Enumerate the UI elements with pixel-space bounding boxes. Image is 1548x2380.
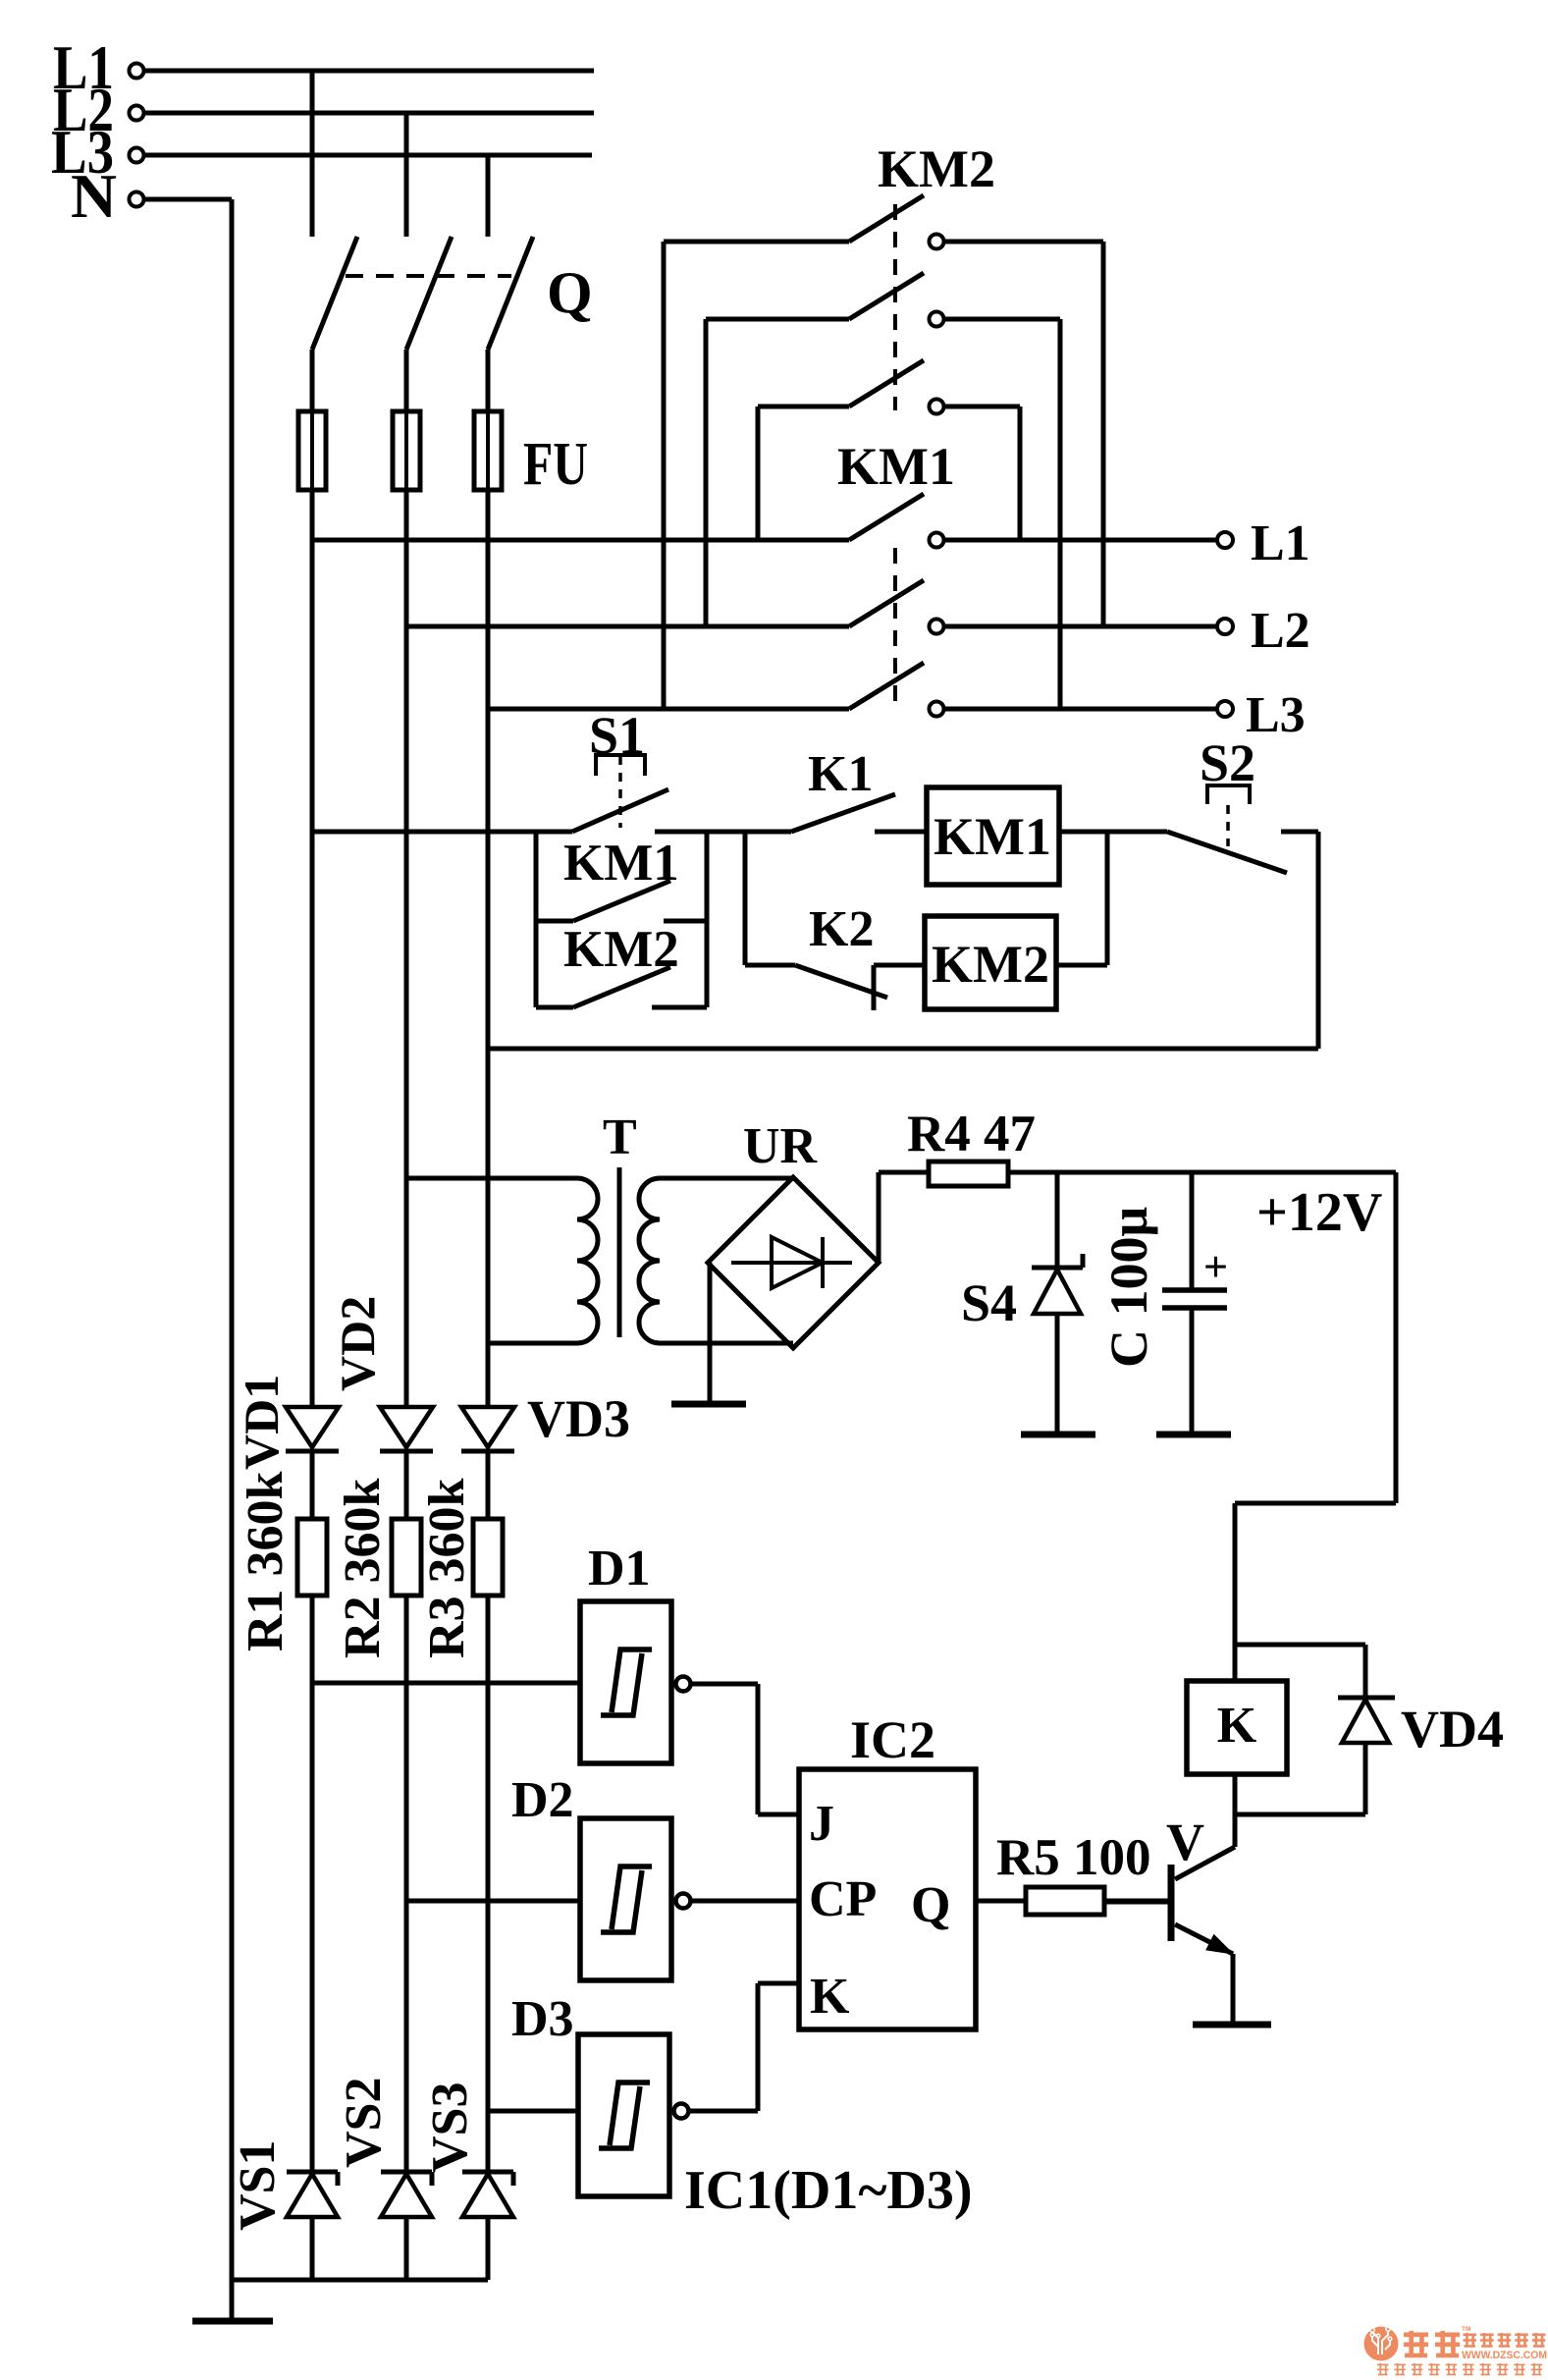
svg-text:S4: S4 xyxy=(961,1273,1017,1332)
svg-text:D2: D2 xyxy=(511,1772,574,1828)
svg-text:K2: K2 xyxy=(809,901,874,957)
svg-text:VD3: VD3 xyxy=(527,1389,630,1448)
svg-text:VD1: VD1 xyxy=(234,1375,289,1470)
svg-text:R3 360k: R3 360k xyxy=(419,1478,475,1658)
svg-text:KM1: KM1 xyxy=(837,437,955,496)
svg-text:D1: D1 xyxy=(588,1541,651,1596)
svg-text:WWW.DZSC.COM: WWW.DZSC.COM xyxy=(1462,2350,1547,2361)
svg-text:KM2: KM2 xyxy=(563,921,679,978)
svg-text:+12V: +12V xyxy=(1256,1182,1382,1243)
svg-text:UR: UR xyxy=(743,1118,819,1174)
svg-text:R5 100: R5 100 xyxy=(996,1829,1151,1886)
svg-text:K: K xyxy=(1217,1698,1257,1754)
svg-text:C 100μ: C 100μ xyxy=(1099,1207,1158,1368)
svg-text:K1: K1 xyxy=(808,746,873,802)
svg-text:R4 47: R4 47 xyxy=(907,1106,1036,1163)
svg-text:VD2: VD2 xyxy=(330,1296,385,1391)
svg-text:FU: FU xyxy=(523,431,588,498)
svg-text:KM2: KM2 xyxy=(932,935,1049,994)
svg-text:J: J xyxy=(809,1796,834,1852)
svg-text:TM: TM xyxy=(1462,2326,1470,2333)
svg-text:Q: Q xyxy=(547,260,593,325)
svg-text:+: + xyxy=(1203,1243,1228,1291)
svg-text:K: K xyxy=(810,1969,850,2025)
svg-text:D3: D3 xyxy=(511,1991,574,2047)
svg-text:KM1: KM1 xyxy=(563,835,679,892)
svg-text:S1: S1 xyxy=(589,706,645,765)
svg-text:L2: L2 xyxy=(1251,603,1310,659)
svg-text:Q: Q xyxy=(911,1877,950,1933)
svg-text:IC1(D1~D3): IC1(D1~D3) xyxy=(684,2160,973,2221)
svg-text:CP: CP xyxy=(809,1871,877,1927)
svg-text:T: T xyxy=(603,1109,637,1165)
svg-text:N: N xyxy=(71,161,117,231)
svg-text:VD4: VD4 xyxy=(1401,1700,1504,1758)
svg-text:KM2: KM2 xyxy=(878,139,995,198)
svg-text:R1 360k: R1 360k xyxy=(238,1471,294,1651)
svg-text:VS3: VS3 xyxy=(422,2082,478,2173)
svg-text:S2: S2 xyxy=(1200,733,1255,792)
svg-text:IC2: IC2 xyxy=(850,1710,935,1769)
svg-text:VS2: VS2 xyxy=(336,2078,392,2168)
svg-text:KM1: KM1 xyxy=(934,807,1051,866)
svg-text:VS1: VS1 xyxy=(230,2140,286,2231)
svg-text:R2 360k: R2 360k xyxy=(335,1478,391,1658)
svg-text:V: V xyxy=(1166,1812,1204,1871)
svg-text:L1: L1 xyxy=(1251,515,1310,571)
